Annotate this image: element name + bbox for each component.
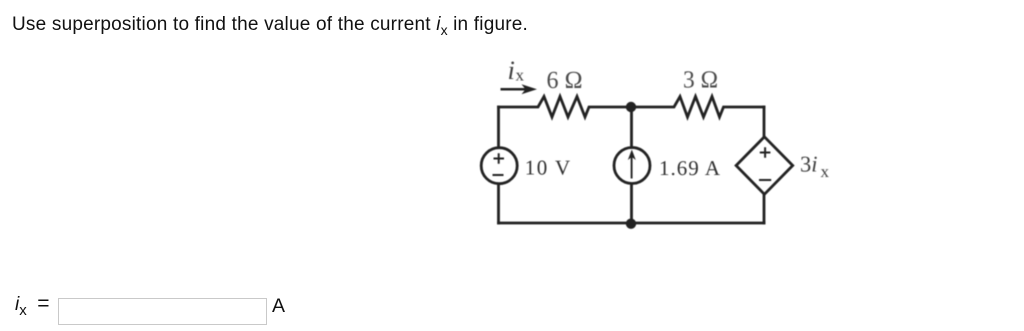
svg-text:i: i — [508, 55, 515, 85]
svg-text:10 V: 10 V — [525, 156, 572, 180]
svg-text:x: x — [516, 66, 525, 85]
svg-text:x: x — [821, 162, 830, 181]
svg-text:1.69 A: 1.69 A — [659, 156, 721, 180]
svg-text:6 Ω: 6 Ω — [547, 67, 583, 94]
svg-text:3i: 3i — [800, 152, 818, 177]
svg-text:3 Ω: 3 Ω — [683, 67, 718, 94]
